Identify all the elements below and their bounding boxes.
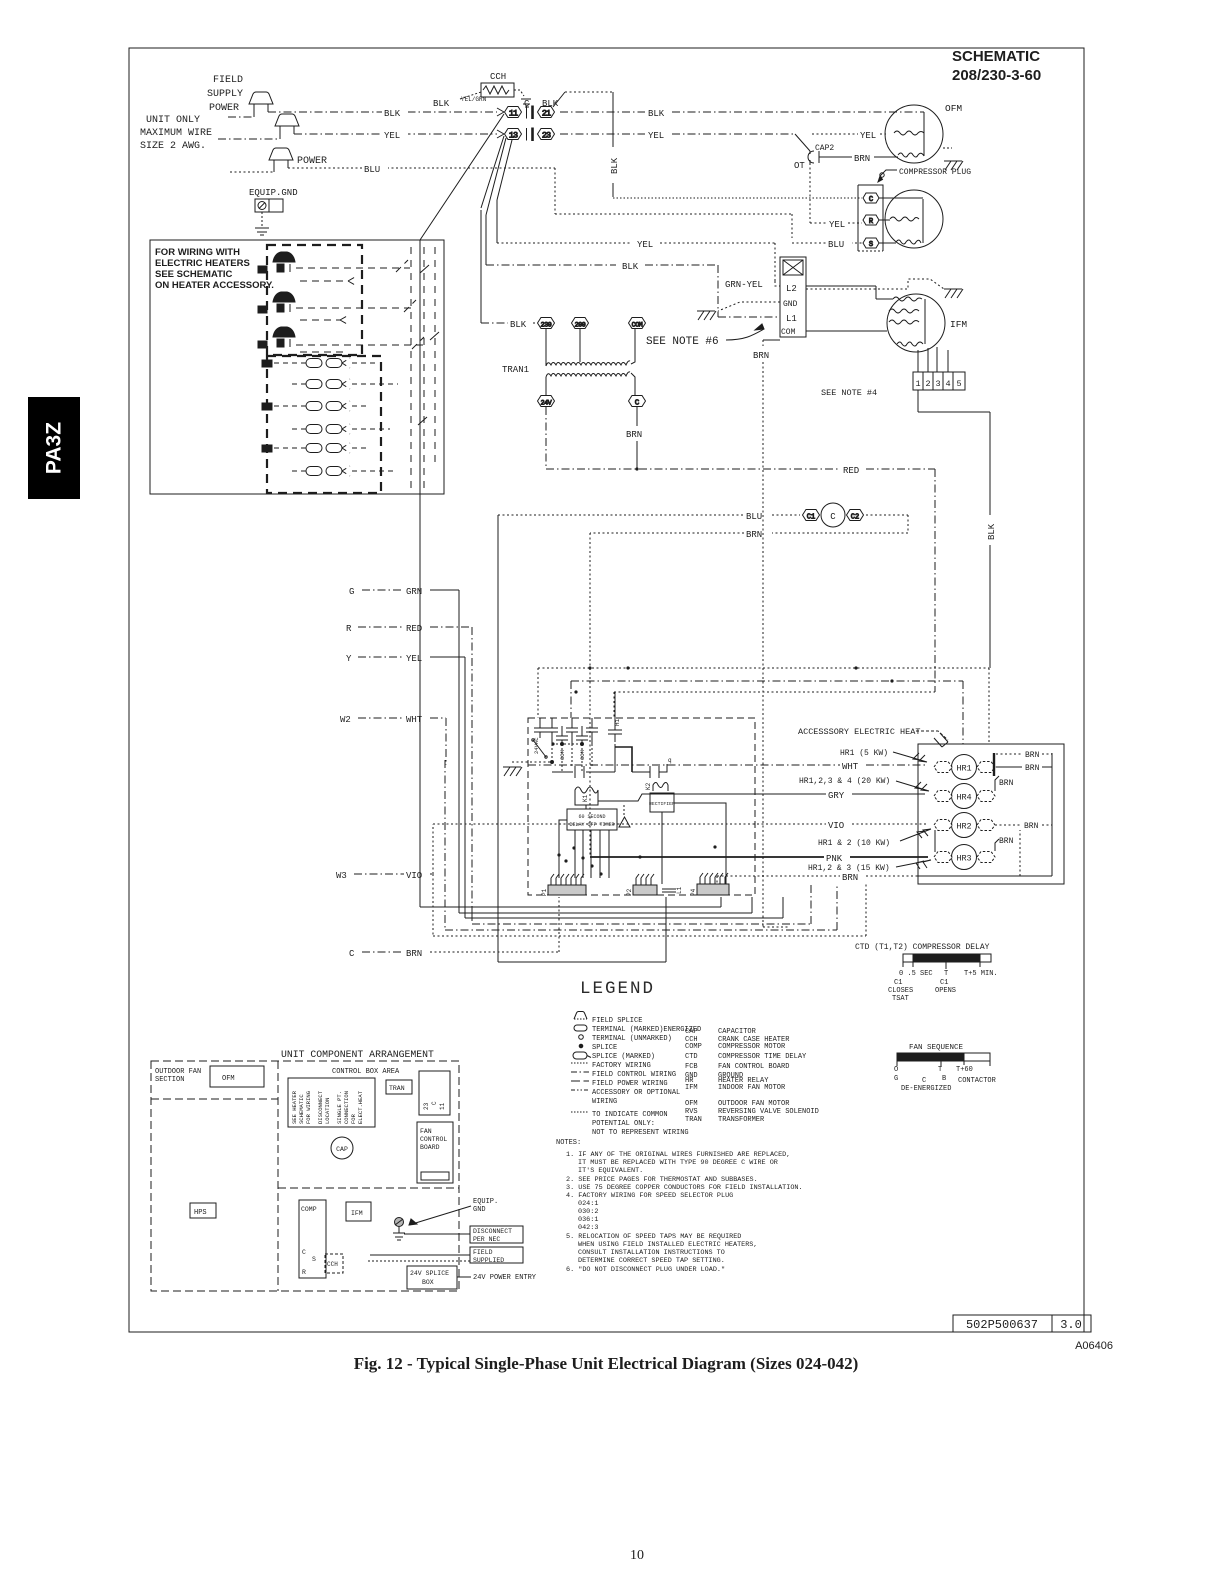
heater relay HR1 (952, 755, 977, 780)
svg-text:L1: L1 (676, 886, 683, 894)
CCH arrangement box (325, 1254, 343, 1273)
svg-text:BRN: BRN (854, 154, 870, 164)
arrow HR3 (896, 860, 931, 869)
svg-text:CONTROL: CONTROL (420, 1136, 447, 1143)
wire BLK lower run to L1 (486, 265, 780, 317)
svg-text:BRN: BRN (406, 949, 422, 959)
heater relay HR2 (952, 813, 977, 838)
svg-text:P2: P2 (626, 888, 633, 896)
svg-text:L2: L2 (786, 284, 797, 294)
svg-text:230: 230 (541, 322, 552, 329)
wire BRN heater bottom (717, 830, 1020, 895)
svg-text:WIRING: WIRING (592, 1098, 617, 1106)
timer leads (552, 744, 609, 878)
svg-text:C1: C1 (940, 979, 948, 987)
svg-text:C: C (830, 512, 836, 522)
bus W3 spare (433, 874, 866, 936)
legend accessory sample (571, 1089, 589, 1091)
svg-text:WHT: WHT (842, 762, 859, 772)
node YEL label (382, 128, 408, 141)
svg-text:FAN: FAN (420, 1128, 432, 1135)
legend field control sample (571, 1071, 589, 1073)
svg-text:23: 23 (423, 1102, 430, 1110)
svg-text:RECTIFIER: RECTIFIER (649, 801, 675, 807)
wire BRN to OFM (819, 156, 898, 158)
svg-text:LEGEND: LEGEND (580, 979, 655, 999)
heater acc lower row3 terminals (262, 401, 370, 411)
FCB ground lead (512, 761, 554, 764)
svg-text:FACTORY WIRING: FACTORY WIRING (592, 1062, 651, 1070)
node BLU label (362, 162, 388, 175)
FCB input cap COM1 (556, 726, 568, 744)
svg-text:TRAN: TRAN (685, 1116, 702, 1124)
svg-text:BRN: BRN (999, 779, 1014, 788)
border frame (129, 48, 1084, 1332)
accessory heat leader arrow (916, 731, 948, 747)
FCB contact K2 (632, 764, 667, 778)
svg-text:FAN CONTROL BOARD: FAN CONTROL BOARD (718, 1063, 789, 1071)
terminal 23 (538, 129, 555, 141)
legend factory wiring sample (571, 1062, 588, 1064)
svg-text:SPLICE (MARKED): SPLICE (MARKED) (592, 1053, 655, 1061)
svg-text:BOARD: BOARD (420, 1144, 440, 1151)
svg-text:UNIT COMPONENT ARRANGEMENT: UNIT COMPONENT ARRANGEMENT (281, 1049, 434, 1060)
heater acc right dashed verticals (411, 247, 439, 490)
wire WHT to HR1 (528, 764, 925, 766)
svg-text:EQUIP.: EQUIP. (473, 1198, 498, 1206)
terminal 230 (538, 318, 555, 329)
disconnect per nec box (470, 1226, 523, 1243)
FCB input cap 24VAC (534, 718, 546, 738)
svg-text:CAP: CAP (336, 1146, 348, 1153)
heater acc lower row4 terminals (292, 424, 390, 434)
svg-text:24VAC: 24VAC (533, 737, 540, 754)
wire VIO to HR2 (433, 823, 928, 825)
svg-text:FOR: FOR (350, 1113, 357, 1124)
svg-text:036:1: 036:1 (578, 1216, 598, 1224)
svg-text:T+60: T+60 (956, 1066, 973, 1074)
legend common potential sample (571, 1111, 588, 1113)
svg-text:030:2: 030:2 (578, 1208, 598, 1216)
heater relay HR3 (952, 845, 977, 870)
wire PNK to HR3 (590, 856, 928, 858)
svg-text:0 .5 SEC: 0 .5 SEC (899, 970, 933, 978)
wire BLK field supply (228, 112, 497, 117)
nest wire y692 (614, 692, 935, 718)
svg-text:HR1,2 & 3 (15 KW): HR1,2 & 3 (15 KW) (808, 864, 890, 873)
svg-text:BLK: BLK (622, 262, 639, 272)
arrow HR4 (896, 781, 929, 791)
svg-text:024:1: 024:1 (578, 1200, 598, 1208)
svg-text:C1: C1 (894, 979, 902, 987)
HPS box (190, 1203, 216, 1218)
svg-text:G: G (894, 1075, 898, 1083)
svg-text:OT: OT (794, 161, 805, 171)
nest wire y681 (571, 681, 963, 744)
svg-text:ACCESSORY OR OPTIONAL: ACCESSORY OR OPTIONAL (592, 1089, 680, 1097)
svg-text:BLK: BLK (648, 109, 665, 119)
wire L2 to IFM (806, 286, 893, 299)
terminal 200 (572, 318, 589, 329)
svg-text:DISCONNECT: DISCONNECT (317, 1090, 324, 1124)
svg-text:COMPRESSOR TIME DELAY: COMPRESSOR TIME DELAY (718, 1053, 807, 1061)
rectifier leads (662, 803, 726, 884)
FCB common bus dotted (552, 743, 584, 758)
svg-text:FOR WIRING WITH: FOR WIRING WITH (155, 247, 240, 258)
svg-text:FOR WIRING: FOR WIRING (305, 1091, 312, 1124)
unit arrangement outer box (151, 1061, 459, 1291)
svg-text:q: q (668, 757, 672, 764)
fan control board arrangement box (417, 1122, 453, 1183)
legend terminal marked symbol (574, 1025, 587, 1031)
node BLK label (382, 106, 408, 119)
FCB input cap H1 (608, 692, 622, 742)
compressor plug box (858, 185, 883, 251)
svg-text:CCH: CCH (490, 72, 506, 82)
svg-text:YEL: YEL (860, 131, 876, 141)
legend terminal unmarked symbol (579, 1035, 584, 1040)
svg-text:SUPPLY: SUPPLY (207, 89, 243, 100)
heater relay HR4 (952, 784, 977, 809)
svg-text:UNIT ONLY: UNIT ONLY (146, 115, 200, 126)
heater accessory dashed box upper (267, 245, 362, 355)
svg-text:10: 10 (630, 1548, 644, 1563)
speed selector plug 1 2 3 4 5 (913, 372, 965, 390)
svg-text:K1: K1 (582, 794, 589, 802)
svg-text:042:3: 042:3 (578, 1224, 598, 1232)
svg-text:1: 1 (915, 379, 920, 389)
svg-text:ON HEATER ACCESSORY.: ON HEATER ACCESSORY. (155, 280, 274, 291)
wire bundle vertical x481 (480, 210, 482, 323)
svg-text:GRN-YEL: GRN-YEL (725, 280, 763, 290)
svg-text:L1: L1 (786, 314, 797, 324)
svg-text:SEE NOTE #4: SEE NOTE #4 (821, 388, 877, 398)
wire GRY to HR4 (598, 794, 925, 801)
svg-text:BRN: BRN (1025, 751, 1040, 760)
legend field splice symbol (574, 1012, 587, 1020)
node BLU2 label (826, 237, 852, 250)
svg-text:BRN: BRN (999, 837, 1014, 846)
svg-text:BRN: BRN (1024, 822, 1039, 831)
wire T21 to BLK vertical (553, 92, 613, 107)
svg-text:5: 5 (956, 379, 961, 389)
wire BRN vertical to bus (763, 926, 790, 928)
diagonal fan from T11 (420, 108, 512, 240)
terminal 13 (505, 129, 522, 141)
wire L2 to ground right (806, 279, 944, 289)
svg-text:GRY: GRY (828, 791, 845, 801)
svg-text:IFM: IFM (950, 319, 967, 330)
svg-text:SIZE 2 AWG.: SIZE 2 AWG. (140, 141, 206, 152)
svg-text:COMP: COMP (685, 1043, 702, 1051)
svg-text:HR1 & 2 (10 KW): HR1 & 2 (10 KW) (818, 839, 890, 848)
terminal HR2 right (977, 820, 995, 831)
svg-text:3.0: 3.0 (1060, 1318, 1082, 1332)
svg-text:R: R (302, 1269, 306, 1276)
connector P1 (548, 874, 586, 895)
svg-text:C: C (922, 1077, 926, 1085)
terminal 11 (505, 107, 522, 119)
svg-text:COMP: COMP (301, 1206, 317, 1213)
svg-text:C: C (302, 1249, 306, 1256)
wire bundle vertical x486 (485, 215, 487, 265)
svg-text:POWER: POWER (297, 156, 327, 167)
svg-text:REVERSING VALVE SOLENOID: REVERSING VALVE SOLENOID (718, 1108, 819, 1116)
svg-text:BRN: BRN (626, 430, 642, 440)
svg-text:TRAN: TRAN (389, 1085, 405, 1092)
svg-text:HR2: HR2 (956, 822, 971, 832)
svg-text:ACCESSSORY ELECTRIC HEAT: ACCESSSORY ELECTRIC HEAT (798, 727, 920, 737)
svg-text:T+5 MIN.: T+5 MIN. (964, 970, 998, 978)
svg-text:208/230-3-60: 208/230-3-60 (952, 67, 1041, 84)
svg-text:CLOSES: CLOSES (888, 987, 913, 995)
svg-text:EQUIP.GND: EQUIP.GND (249, 188, 298, 198)
svg-text:C2: C2 (851, 514, 859, 522)
wire HR2 BRN (935, 825, 1052, 852)
svg-text:VIO: VIO (828, 821, 844, 831)
wire GND to ground (718, 302, 780, 311)
legend splice marked symbol (573, 1052, 591, 1059)
wire bundle vertical x497 (496, 200, 498, 243)
heater acc lower row6 terminals (292, 466, 394, 476)
svg-text:21: 21 (542, 109, 551, 119)
svg-text:COM: COM (632, 322, 643, 329)
field splice S2 (275, 114, 299, 126)
heater accessory outer box (150, 240, 444, 494)
note 6 arrow (726, 324, 764, 340)
bus Y wire right (465, 897, 783, 918)
fan control board FCB box (528, 718, 755, 895)
splice H3 dark (258, 327, 295, 348)
capacitor L1 fcb (662, 889, 676, 892)
arrow HR1 (893, 752, 927, 762)
heater acc lower row1 terminals (262, 358, 376, 368)
svg-text:P4: P4 (690, 888, 697, 896)
svg-text:YEL: YEL (637, 240, 653, 250)
contactor coil C (821, 503, 845, 527)
svg-text:HR1: HR1 (956, 764, 971, 774)
svg-text:G: G (349, 587, 354, 597)
svg-text:ELECTRIC HEATERS: ELECTRIC HEATERS (155, 258, 250, 269)
svg-text:INDOOR FAN MOTOR: INDOOR FAN MOTOR (718, 1084, 786, 1092)
svg-text:C: C (349, 949, 355, 959)
svg-text:TRANSFORMER: TRANSFORMER (718, 1116, 765, 1124)
svg-text:S: S (869, 241, 873, 249)
svg-text:2: 2 (925, 379, 930, 389)
wire BLU field supply (230, 168, 862, 243)
transformer terminals BLK 230 (481, 322, 535, 324)
terminal C1 (803, 510, 820, 522)
svg-text:24V POWER ENTRY: 24V POWER ENTRY (473, 1274, 537, 1282)
svg-text:B: B (942, 1075, 946, 1083)
nest wire y668 (538, 668, 989, 744)
svg-text:SCHEMATIC: SCHEMATIC (298, 1094, 305, 1124)
ground below equip lug (255, 212, 269, 235)
svg-text:OPENS: OPENS (935, 987, 956, 995)
wire YEL field supply (218, 134, 497, 139)
svg-text:FIELD SPLICE: FIELD SPLICE (592, 1017, 642, 1025)
field splice S1 (249, 92, 273, 104)
svg-text:TO INDICATE COMMON: TO INDICATE COMMON (592, 1111, 668, 1119)
gnd screw symbol (393, 1218, 405, 1241)
svg-text:BLK: BLK (510, 320, 527, 330)
equip gnd arrow (409, 1206, 471, 1225)
svg-text:13: 13 (509, 131, 518, 141)
svg-text:TERMINAL (UNMARKED): TERMINAL (UNMARKED) (592, 1035, 672, 1043)
motor COMP (879, 190, 943, 248)
svg-text:ELECT.HEAT: ELECT.HEAT (357, 1090, 364, 1124)
ground at GND terminal (697, 311, 716, 320)
svg-text:HPS: HPS (194, 1209, 207, 1217)
wire HR4 BRN (995, 776, 999, 791)
wire YEL lower run (497, 243, 775, 281)
svg-text:IT MUST BE REPLACED WITH TYPE: IT MUST BE REPLACED WITH TYPE 90 DEGREE … (578, 1159, 778, 1167)
svg-text:YEL: YEL (829, 220, 845, 230)
svg-text:C: C (635, 400, 640, 408)
CTD time bar (903, 954, 991, 969)
svg-text:P1: P1 (541, 888, 548, 896)
svg-text:OFM: OFM (222, 1075, 235, 1083)
IFM arrangement box (346, 1202, 371, 1221)
terminal HR1 left (934, 762, 952, 773)
triangle symbol (619, 805, 630, 827)
heater box (918, 744, 1064, 884)
svg-text:NOTES:: NOTES: (556, 1139, 581, 1147)
motor IFM (887, 294, 945, 352)
svg-text:T: T (938, 1066, 942, 1074)
terminal 21 (538, 107, 555, 119)
svg-text:O: O (894, 1066, 898, 1074)
terminal C compressor (863, 193, 879, 204)
wire YEL to OFM (812, 133, 886, 135)
svg-text:11: 11 (439, 1102, 446, 1110)
svg-text:OUTDOOR FAN MOTOR: OUTDOOR FAN MOTOR (718, 1100, 790, 1108)
svg-text:3: 3 (935, 379, 940, 389)
svg-text:PER NEC: PER NEC (473, 1236, 500, 1243)
heater schematic rotated box (288, 1078, 375, 1127)
terminal S compressor (863, 238, 879, 249)
terminal HR2 left (934, 820, 952, 831)
rectifier (650, 793, 674, 812)
svg-text:HR1 (5 KW): HR1 (5 KW) (840, 749, 888, 758)
svg-text:H1: H1 (614, 718, 621, 726)
splice H1 dark (258, 252, 295, 273)
splice H2 dark (258, 292, 295, 313)
svg-text:6. "DO NOT DISCONNECT PLUG UND: 6. "DO NOT DISCONNECT PLUG UNDER LOAD." (566, 1266, 725, 1274)
fan sequence bar (897, 1053, 990, 1066)
terminal HR4 right (977, 791, 995, 802)
svg-text:YEL/GRN: YEL/GRN (461, 96, 487, 103)
svg-text:SCHEMATIC: SCHEMATIC (952, 48, 1040, 65)
bus G wire right (459, 897, 752, 913)
svg-text:FIELD: FIELD (213, 75, 243, 86)
terminal C tran (629, 396, 646, 408)
svg-text:OFM: OFM (945, 103, 962, 114)
svg-text:CONTACTOR: CONTACTOR (958, 1077, 997, 1085)
wire HR3 BRN (995, 839, 999, 851)
bus W2 spare (445, 760, 837, 930)
wire OT down to R terminal (810, 163, 862, 223)
svg-text:BLU: BLU (364, 165, 380, 175)
ground OFM (943, 148, 963, 170)
svg-text:SECTION: SECTION (155, 1076, 184, 1084)
FCB input cap COM2 (576, 726, 588, 744)
svg-text:1. IF ANY OF THE ORIGINAL WIRE: 1. IF ANY OF THE ORIGINAL WIRES FURNISHE… (566, 1151, 790, 1159)
wire bundle vertical BLK T11 (420, 240, 721, 907)
switch OT (795, 134, 810, 151)
svg-text:11: 11 (509, 109, 518, 119)
wires IFM to speed connector (918, 347, 948, 372)
wire BRN from C tran (636, 407, 638, 469)
svg-text:BRN: BRN (1025, 764, 1040, 773)
OFM arrangement box (210, 1066, 264, 1087)
svg-text:PNK: PNK (826, 854, 843, 864)
wire HR1 BRN upper (994, 753, 1052, 776)
svg-text:DISCONNECT: DISCONNECT (473, 1228, 512, 1235)
svg-text:200: 200 (575, 322, 586, 329)
svg-text:SEE SCHEMATIC: SEE SCHEMATIC (155, 269, 233, 280)
svg-text:C: C (869, 196, 873, 204)
svg-text:Fig. 12 - Typical Single-Phase: Fig. 12 - Typical Single-Phase Unit Elec… (354, 1354, 859, 1373)
svg-text:S: S (312, 1256, 316, 1263)
wire COM to IFM lower (806, 330, 887, 332)
legend field power sample (571, 1080, 589, 1082)
svg-text:A06406: A06406 (1075, 1340, 1113, 1352)
svg-text:BOX: BOX (422, 1279, 434, 1286)
wire BLK vertical to compressor (613, 92, 862, 198)
ground FCB (503, 767, 522, 776)
TRAN arrangement box (386, 1080, 412, 1094)
svg-text:COMPRESSOR PLUG: COMPRESSOR PLUG (899, 168, 971, 177)
terminal HR1 right (977, 762, 995, 773)
heater acc wires row2 (296, 300, 416, 324)
svg-text:R: R (346, 624, 352, 634)
svg-text:RED: RED (843, 466, 859, 476)
svg-text:GND: GND (473, 1206, 486, 1214)
svg-text:K2: K2 (645, 782, 652, 790)
svg-text:OFM: OFM (685, 1100, 698, 1108)
svg-text:DELAY OFF TIMER: DELAY OFF TIMER (569, 822, 614, 828)
svg-text:FAN SEQUENCE: FAN SEQUENCE (909, 1044, 964, 1052)
relay K2 coil (653, 783, 668, 792)
equip gnd lug (255, 199, 283, 212)
svg-text:W3: W3 (336, 871, 347, 881)
connector P2 (633, 874, 657, 895)
wire GRN-YEL into L2 (775, 281, 780, 286)
heater accessory dashed box lower (267, 356, 381, 493)
heater acc wires row3 (296, 337, 424, 352)
junction dots FCB (551, 467, 893, 875)
wire plug pin1 BLK down (918, 390, 990, 668)
svg-text:BLK: BLK (610, 157, 620, 174)
svg-text:OUTDOOR FAN: OUTDOOR FAN (155, 1068, 201, 1076)
terminal 24V (538, 396, 555, 407)
svg-text:4: 4 (945, 379, 950, 389)
PA3Z side tab (28, 397, 80, 499)
FCB input cap G (586, 718, 598, 744)
svg-text:CONTROL BOX AREA: CONTROL BOX AREA (332, 1068, 400, 1076)
wire RED 24V run (546, 407, 935, 692)
title block 502P500637 3.0 (953, 1315, 1091, 1332)
terminal board rotated box (419, 1071, 450, 1115)
relay K1 coil (575, 787, 598, 805)
field splice S3 (269, 148, 293, 160)
svg-text:GND: GND (783, 300, 798, 309)
svg-text:4. FACTORY WIRING FOR SPEED SE: 4. FACTORY WIRING FOR SPEED SELECTOR PLU… (566, 1192, 733, 1200)
connector P4 (697, 873, 729, 895)
svg-text:BRN: BRN (746, 530, 762, 540)
svg-text:FIELD POWER WIRING: FIELD POWER WIRING (592, 1080, 668, 1088)
